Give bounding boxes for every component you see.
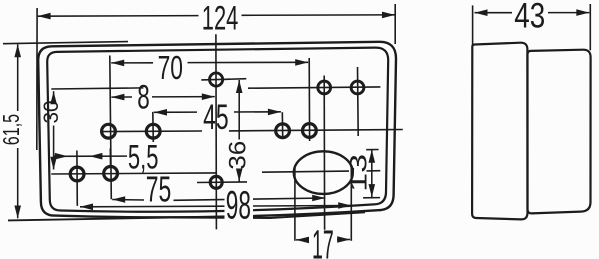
dim 43 right arrow — [576, 9, 589, 16]
row line through holes D E F G left part — [100, 130, 202, 133]
oval hole K — [294, 151, 353, 194]
svg-text:17: 17 — [312, 221, 334, 259]
dim 13 top arrow — [369, 150, 376, 163]
dim 30 top reference line — [51, 88, 143, 89]
dim 13 bottom arrow — [369, 184, 376, 197]
dim 30 top arrow — [50, 91, 57, 104]
node A reference line — [224, 78, 246, 81]
svg-text:8: 8 — [137, 79, 150, 117]
dim 124 left extension line — [36, 8, 38, 150]
dim 17 left arrow — [296, 237, 309, 244]
dim 17 right extension line — [350, 166, 352, 241]
dim 13 bottom tick — [363, 197, 380, 199]
dim 75 line right part — [174, 198, 326, 200]
hole C top-right-2 — [351, 81, 364, 94]
dim 36 line upper — [238, 80, 240, 140]
dim 61,5 line lower — [17, 148, 19, 218]
dim 43 line left part — [475, 12, 513, 14]
hole F mid-right-1 — [276, 124, 290, 138]
dim 43 left arrow — [475, 9, 488, 16]
dim 75 left arrow — [112, 196, 125, 203]
dim 75 line left part — [112, 199, 144, 202]
hole H vertical line — [76, 151, 78, 206]
dim 70 left arrow — [111, 60, 124, 67]
label 98 background — [225, 190, 254, 220]
lens outline (front view) — [47, 48, 388, 212]
oval centerline right part — [367, 170, 381, 172]
dim 70 line right part — [188, 61, 309, 63]
hole G column line — [308, 58, 310, 141]
housing bottom flange line — [8, 212, 365, 220]
dim 30 line upper — [53, 91, 55, 99]
dim 70 line left part — [111, 62, 153, 64]
dim 98 right arrow — [338, 202, 351, 209]
dim 5,5 line — [53, 155, 127, 157]
dim 13 line — [371, 150, 373, 198]
hole J crosshair — [197, 181, 247, 184]
hole B top-right-1 — [318, 81, 331, 94]
svg-text:75: 75 — [146, 168, 172, 209]
dim 43 line right part — [548, 12, 589, 14]
svg-text:30: 30 — [39, 100, 63, 123]
hole A crosshair — [201, 78, 230, 81]
dim 98 line left part — [80, 205, 225, 208]
dim 45 line left part — [154, 111, 197, 113]
svg-text:61,5: 61,5 — [0, 114, 24, 145]
row line through holes D E F G right part — [229, 130, 403, 131]
center column line — [215, 34, 218, 229]
dim 17 line right part — [337, 239, 350, 241]
dim 124 right extension line — [394, 4, 396, 44]
hole column line x=153 — [152, 112, 155, 142]
hole J bottom-center — [210, 176, 222, 188]
hole column line x=282.5 — [281, 112, 283, 136]
svg-text:13: 13 — [345, 154, 372, 192]
dim 36 bottom arrow — [236, 169, 243, 182]
svg-text:36: 36 — [224, 141, 251, 170]
dim 70 right arrow — [295, 59, 308, 66]
hole E mid-left-2 — [146, 124, 160, 138]
dim 124 left arrow — [38, 13, 51, 20]
dim 5,5 left-pointing arrow — [89, 153, 102, 160]
dim 30 line lower — [53, 126, 55, 170]
dim 98 left arrow — [80, 204, 93, 211]
dim 61,5 top arrow — [14, 44, 21, 57]
hole G mid-right-2 — [303, 124, 317, 138]
dim 45 line right part — [234, 111, 281, 113]
hole C crosshair vertical — [357, 67, 360, 136]
oval centerline left part — [262, 171, 349, 172]
svg-text:98: 98 — [226, 184, 251, 228]
dim 98 line right part — [253, 205, 351, 208]
row line through holes H I — [51, 173, 216, 174]
side view lens block — [472, 43, 527, 220]
dim 17 line left part — [296, 239, 309, 241]
dim 61,5 line upper — [17, 44, 19, 111]
dim 124 line right part — [242, 14, 396, 17]
dim 61,5 top extension line — [3, 42, 128, 44]
lamp housing outline (front view) — [38, 42, 396, 218]
dim 13 top tick — [366, 149, 378, 151]
hole column line through D and I — [110, 56, 112, 200]
dim 36 line lower — [238, 171, 240, 182]
dim 124 line left part — [38, 15, 199, 18]
dim 45 right arrow — [268, 109, 281, 116]
svg-text:43: 43 — [514, 0, 545, 36]
hole B column line (down through oval) — [323, 76, 325, 230]
dim 17 right arrow — [337, 236, 350, 243]
dim 43 right extension line — [589, 4, 591, 50]
dim 75 right arrow — [312, 195, 325, 202]
dim 43 left extension line — [472, 5, 474, 44]
row line through holes B C — [248, 87, 380, 88]
dim 8 left arrow — [111, 94, 124, 101]
dim 124 right arrow — [382, 12, 395, 19]
svg-text:124: 124 — [202, 0, 239, 37]
dim 8 line left part — [111, 96, 132, 98]
dim 8 line right part — [152, 96, 215, 98]
hole A top-center — [210, 73, 223, 86]
hole H bottom-left-1 — [70, 167, 84, 181]
side view housing block — [528, 50, 591, 214]
hole I centerline extension — [109, 149, 111, 167]
svg-text:70: 70 — [158, 49, 183, 86]
dim 17 left extension line — [294, 168, 296, 241]
dim 61,5 bottom arrow — [14, 206, 21, 219]
dim 45 left arrow — [154, 109, 167, 116]
dim 36 top arrow — [236, 80, 243, 93]
hole D mid-left-1 — [102, 124, 116, 138]
hole I bottom-left-2 — [104, 167, 118, 181]
dim 30 bottom arrow — [50, 157, 57, 170]
dim 5,5 right-pointing arrow — [55, 153, 68, 160]
dim 8 right arrow — [202, 93, 215, 100]
